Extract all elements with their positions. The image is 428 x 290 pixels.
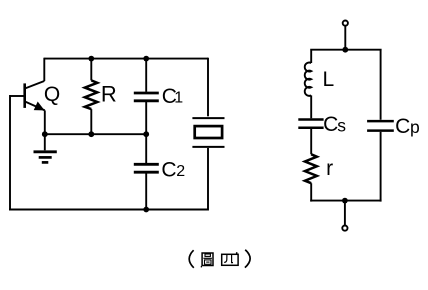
capacitor C2 [134,164,159,172]
wire: R top lead [90,59,92,81]
svg-text:s: s [337,115,346,135]
node: bottom junction of equivalent circuit [342,198,348,204]
node: R top junction [88,56,94,62]
wire: left feedback rail [9,95,208,211]
wire: C2 bottom lead [145,173,147,209]
node: C1/C2 junction [143,131,149,137]
label r [326,157,333,180]
transistor Q1 collector diagonal [26,81,45,88]
svg-text:Q: Q [44,83,60,106]
wire: R bottom lead [90,109,92,134]
wire: C1 bottom lead [145,102,147,134]
label L [323,68,335,91]
inductor L [305,63,311,96]
label C1 [162,85,183,108]
wire: Cs to r lead [310,129,312,154]
wire: top rail of equivalent circuit [310,49,381,120]
wire: bottom rail of equivalent circuit [310,132,381,202]
wire: bottom terminal lead [344,201,346,226]
wire: emitter row (middle rail) [45,133,146,135]
caption: right parenthesis [245,250,250,268]
node: top junction of equivalent circuit [342,47,348,53]
terminal: top port circle [343,21,348,26]
wire: L to Cs lead [310,95,312,118]
transistor Q1 emitter arrow [35,103,44,110]
terminal: bottom port circle [342,226,347,231]
node: C2 bottom junction [143,207,149,213]
wire: C2 top lead [145,134,147,163]
wire: crystal bottom lead [207,148,209,211]
transistor Q1 emitter diagonal [26,102,45,111]
caption: character 圖 [201,253,213,267]
svg-text:C: C [395,115,410,138]
label Cs [323,113,346,136]
resistor R [85,80,98,109]
capacitor C1 [134,93,159,101]
wire: emitter lead vertical [44,110,46,134]
resistor r [305,154,317,183]
capacitor Cs [298,120,323,128]
svg-text:C: C [323,113,338,136]
svg-text:r: r [326,157,333,180]
caption: left parenthesis [189,250,194,268]
wire: r bottom lead [310,183,312,201]
node: R bottom junction [88,131,94,137]
svg-text:R: R [101,82,117,107]
wire: top rail of oscillator [44,58,208,60]
svg-text:2: 2 [176,163,185,180]
crystal X1 [192,118,224,147]
capacitor Cp [367,121,394,131]
caption: character 四 [222,252,238,265]
wire: C1 top lead [145,59,147,92]
svg-text:1: 1 [174,90,183,107]
svg-text:p: p [410,117,420,137]
label R [101,82,117,107]
label C2 [161,158,185,181]
label Q [44,83,60,106]
node: emitter junction [42,131,48,137]
wire: top terminal lead [344,26,346,50]
label Cp [395,115,420,138]
wire: collector lead vertical [43,58,45,81]
node: C1 top junction [143,56,149,62]
ground symbol [34,134,57,162]
transistor Q1 base bar [23,83,26,108]
wire: base lead to left rail [10,95,25,97]
wire: crystal top lead [207,58,209,117]
svg-text:L: L [323,68,335,91]
svg-text:C: C [161,158,176,181]
